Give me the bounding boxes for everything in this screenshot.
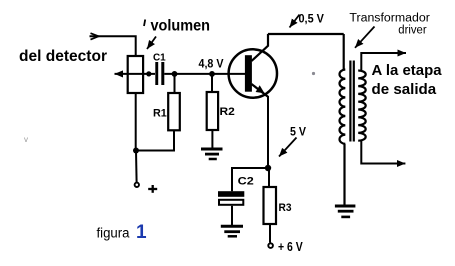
label "volumen" with apostrophe <box>144 18 210 35</box>
transformer secondary winding <box>358 71 366 141</box>
label "del detector" <box>19 48 107 65</box>
svg-text:figura: figura <box>97 226 130 241</box>
label 5 V <box>290 126 306 138</box>
capacitor C2 label <box>238 176 254 188</box>
stray mark v <box>24 135 28 144</box>
arrow 0,5V pointing to wire <box>290 15 300 28</box>
terminal open circle +6V <box>268 243 273 248</box>
wire secondary bottom output with arrow <box>361 141 405 164</box>
svg-text:C1: C1 <box>153 52 166 64</box>
wire R1 bottom to junction <box>136 130 174 150</box>
transistor Q1 circle <box>229 49 277 97</box>
potentiometer wiper arrow (points left) <box>115 73 156 75</box>
wire junction down to + terminal <box>135 151 138 183</box>
wire node to C2 branch <box>232 168 268 191</box>
label figura 1 <box>97 222 148 243</box>
wire emitter down to 5V node <box>267 96 269 168</box>
svg-text:del detector: del detector <box>19 48 107 65</box>
svg-text:A la etapa: A la etapa <box>372 63 443 79</box>
resistor R1 body <box>168 93 180 130</box>
capacitor C2 plates (electrolytic) <box>218 191 244 205</box>
node junction dot 4,8V (R2 top) <box>209 71 215 77</box>
resistor R2 top lead <box>211 74 213 92</box>
wire pot bottom lead <box>135 93 137 151</box>
svg-text:1: 1 <box>136 222 147 243</box>
node junction dot left of C1 <box>146 71 151 76</box>
capacitor C1 plates <box>155 62 164 85</box>
svg-text:R2: R2 <box>220 106 235 118</box>
resistor R3 label <box>279 202 292 214</box>
wire primary bottom lead to ground <box>343 144 345 205</box>
ground under R2 <box>201 149 223 159</box>
resistor R2 body <box>207 92 218 130</box>
speck noise <box>312 72 315 75</box>
svg-text:R1: R1 <box>153 108 167 120</box>
transistor collector line up <box>252 34 269 61</box>
wire input horizontal + down to potentiometer top <box>90 36 136 56</box>
transformer core lines <box>350 61 353 142</box>
svg-text:+ 6 V: + 6 V <box>278 240 303 254</box>
transistor base bar <box>245 55 252 91</box>
wire collector top horizontal to transformer <box>268 33 344 35</box>
svg-text:4,8 V: 4,8 V <box>199 58 224 70</box>
capacitor C1 label <box>153 52 166 64</box>
svg-text:5 V: 5 V <box>290 126 306 138</box>
svg-text:0,5 V: 0,5 V <box>299 14 325 26</box>
transistor emitter line with arrow <box>252 84 269 97</box>
label A la etapa de salida <box>372 63 443 98</box>
svg-text:Transformador: Transformador <box>349 12 430 24</box>
potentiometer body <box>128 56 143 93</box>
wire node down to R3 <box>268 168 270 187</box>
resistor R3 body <box>264 187 277 224</box>
wire R3 bottom lead <box>269 224 271 243</box>
transformer primary winding <box>340 70 346 144</box>
resistor R1 label <box>153 108 167 120</box>
plus sign at terminal <box>148 185 157 193</box>
svg-text:de salida: de salida <box>372 82 438 98</box>
wire C2 bottom lead <box>231 206 233 225</box>
svg-text:C2: C2 <box>238 176 254 188</box>
ground under transformer <box>335 206 356 217</box>
node junction dot bottom (pot/R1) <box>133 148 139 154</box>
terminal open circle + <box>135 183 139 187</box>
resistor R2 label <box>220 106 235 118</box>
arrow Transformador to transformer <box>355 27 375 48</box>
input open arrowhead (from detector) <box>91 33 99 39</box>
arrow 5V to emitter node <box>279 138 297 157</box>
label 4,8 V <box>199 58 224 70</box>
ground under C2 <box>221 226 243 236</box>
node junction dot right of C1 (R1 top) <box>172 71 178 77</box>
wire R2 bottom lead <box>211 130 213 148</box>
svg-text:volumen: volumen <box>151 18 211 35</box>
svg-text:driver: driver <box>398 24 426 36</box>
svg-text:R3: R3 <box>279 202 292 214</box>
label + 6 V <box>278 240 303 254</box>
resistor R1 top lead <box>174 74 176 93</box>
transformer T1 primary top lead <box>343 34 345 70</box>
wire secondary top output with arrow <box>361 53 406 71</box>
wire C1 right to transistor base (through nodes) <box>164 73 245 75</box>
arrow from volumen to potentiometer <box>147 37 156 50</box>
svg-text:v: v <box>24 135 28 144</box>
node junction dot 5V (emitter/C2/R3) <box>265 165 271 171</box>
label 0,5 V <box>299 14 325 26</box>
label Transformador driver <box>349 12 430 36</box>
